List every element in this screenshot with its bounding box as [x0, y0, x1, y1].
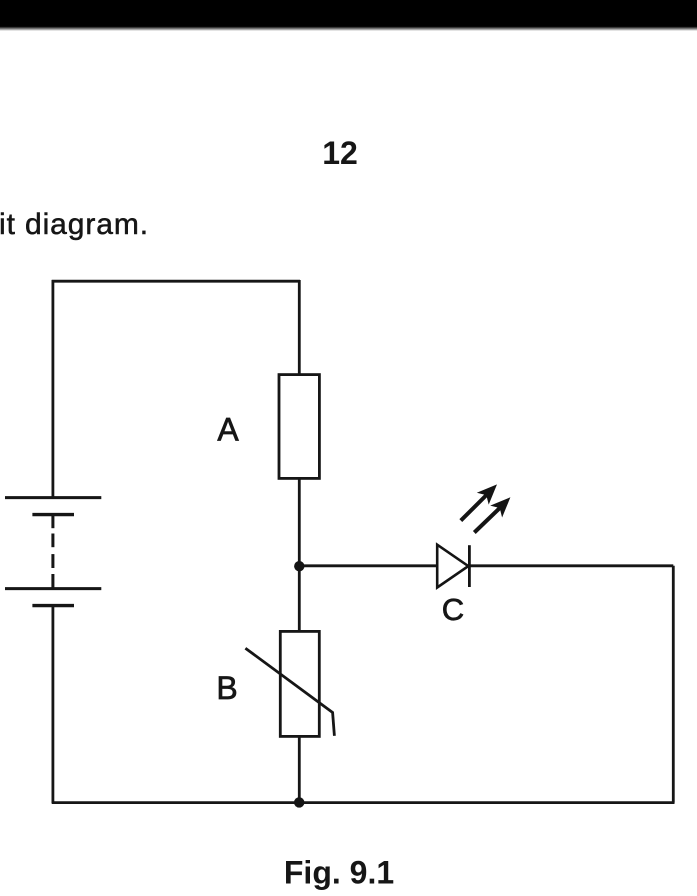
svg-text:A: A — [217, 411, 239, 447]
node junction at divider (dot) — [294, 561, 304, 571]
battery cell 2 short plate — [32, 604, 74, 607]
resistor A — [279, 375, 319, 479]
LED arrow 2 (lower-right) — [474, 497, 510, 532]
wire right (LED line down to bottom wire) — [672, 566, 675, 803]
thermistor B diagonal stroke with foot — [245, 648, 334, 736]
wire middle (resistor A to thermistor B through node) — [298, 478, 301, 631]
wire middle upper (top wire to resistor A) — [298, 280, 301, 374]
LED C diode triangle — [437, 545, 468, 588]
battery cell 1 short plate — [32, 513, 74, 516]
wire top (battery to resistor branch) — [52, 280, 300, 283]
svg-text:C: C — [442, 592, 464, 627]
wire LED line (node to right wire) — [299, 564, 673, 567]
battery cell 2 long plate — [5, 587, 101, 590]
svg-text:it diagram.: it diagram. — [0, 208, 149, 241]
battery dashed link (further cells) — [51, 515, 54, 529]
svg-text:B: B — [216, 670, 237, 706]
LED arrow 1 (upper-left) — [461, 484, 497, 520]
svg-text:12: 12 — [322, 135, 358, 171]
thermistor B — [280, 631, 319, 736]
svg-text:Fig. 9.1: Fig. 9.1 — [284, 855, 394, 891]
wire middle lower (thermistor B to bottom node) — [298, 736, 301, 802]
wire bottom (left corner to right corner) — [52, 801, 675, 804]
wire left upper (top corner to battery) — [52, 280, 55, 497]
LED C cathode bar — [468, 545, 471, 587]
wire left lower (battery to bottom corner) — [52, 606, 55, 803]
node junction at bottom wire (dot) — [294, 797, 304, 807]
battery cell 1 long plate — [5, 496, 101, 499]
